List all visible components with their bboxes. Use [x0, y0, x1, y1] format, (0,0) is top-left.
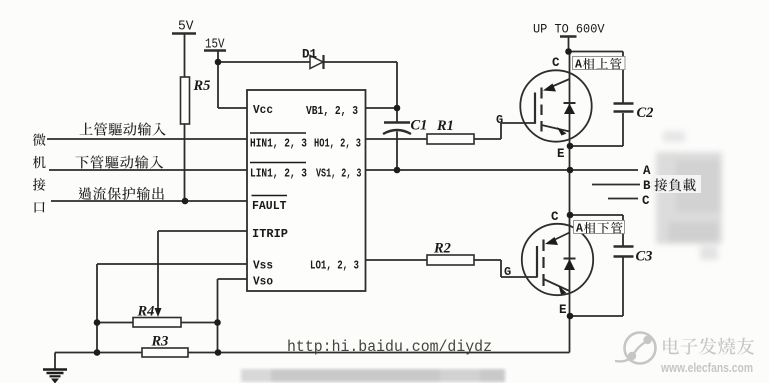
svg-text:R4: R4 — [137, 304, 155, 320]
svg-text:C: C — [642, 194, 650, 208]
svg-text:VS1, 2, 3: VS1, 2, 3 — [316, 168, 362, 181]
svg-text:E: E — [557, 147, 565, 161]
svg-text:http:hi.baidu.com/diydz: http:hi.baidu.com/diydz — [287, 338, 492, 356]
svg-text:R5: R5 — [193, 78, 211, 94]
svg-text:R1: R1 — [436, 118, 454, 134]
svg-text:A: A — [643, 164, 651, 178]
svg-text:C1: C1 — [411, 118, 428, 134]
svg-text:Vso: Vso — [253, 275, 273, 289]
svg-text:D1: D1 — [302, 48, 317, 62]
svg-text:LO1, 2, 3: LO1, 2, 3 — [310, 260, 359, 273]
svg-text:C: C — [551, 210, 559, 224]
svg-text:HO1, 2, 3: HO1, 2, 3 — [314, 138, 361, 151]
svg-text:C: C — [552, 56, 560, 70]
svg-text:G: G — [496, 113, 503, 127]
svg-text:B: B — [643, 179, 651, 193]
svg-text:ITRIP: ITRIP — [252, 227, 288, 241]
svg-text:R3: R3 — [151, 334, 169, 350]
svg-text:FAULT: FAULT — [252, 199, 287, 213]
svg-text:Vss: Vss — [253, 259, 273, 273]
svg-text:C2: C2 — [637, 105, 654, 121]
svg-text:G: G — [504, 265, 511, 279]
svg-text:A: A — [575, 59, 582, 72]
svg-text:HIN1, 2, 3: HIN1, 2, 3 — [250, 138, 307, 151]
svg-text:15V: 15V — [205, 38, 225, 53]
svg-text:www.elecfans.com: www.elecfans.com — [660, 361, 753, 375]
svg-text:5V: 5V — [178, 20, 194, 35]
svg-text:E: E — [559, 303, 567, 317]
svg-text:C3: C3 — [636, 249, 653, 265]
svg-text:LIN1, 2, 3: LIN1, 2, 3 — [250, 168, 307, 181]
svg-text:Vcc: Vcc — [253, 103, 273, 117]
svg-text:VB1, 2, 3: VB1, 2, 3 — [306, 105, 358, 118]
svg-text:R2: R2 — [433, 241, 451, 257]
svg-text:UP TO 600V: UP TO 600V — [533, 22, 605, 37]
svg-text:A: A — [576, 223, 583, 236]
